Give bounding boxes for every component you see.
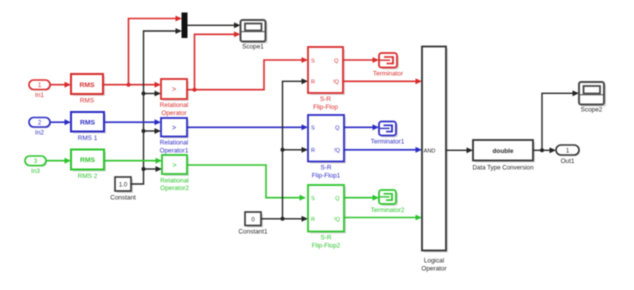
junction node tap to Flip-Flop1 R	[281, 148, 285, 152]
wire RMS to Relational Operator	[103, 82, 161, 88]
wire Flip-Flop1 notQ to Logical Operator input 2	[344, 147, 422, 153]
block RMS1	[71, 112, 106, 142]
svg-text:Operator1: Operator1	[160, 147, 189, 154]
junction node tap to Relational Operator1 b	[142, 129, 146, 133]
svg-text:Out1: Out1	[561, 158, 575, 165]
svg-text:R: R	[311, 217, 315, 223]
svg-text:R: R	[311, 148, 315, 154]
wire Relational Operator output to Scope1 port 2	[195, 31, 241, 89]
scope Scope2	[579, 82, 606, 114]
svg-text:Terminator1: Terminator1	[371, 139, 405, 146]
svg-text:Q: Q	[334, 58, 339, 64]
svg-text:Operator: Operator	[421, 265, 447, 272]
svg-text:S: S	[311, 126, 315, 132]
svg-text:S: S	[311, 196, 315, 202]
wire Constant to Mux input 2 with taps to relational operator b inputs	[131, 28, 182, 184]
wire Flip-Flop notQ to Logical Operator input 1	[343, 78, 422, 84]
wire Constant1 branch to Flip-Flop R input	[283, 78, 309, 218]
wire In1 to RMS	[50, 82, 71, 88]
block RMS2	[71, 150, 106, 181]
junction node Constant1 branch up	[281, 217, 285, 221]
svg-text:>: >	[172, 162, 176, 169]
junction node on Relational Operator output	[193, 88, 197, 92]
svg-text:>: >	[172, 87, 176, 94]
wire Flip-Flop1 Q to Terminator1	[344, 124, 379, 130]
junction node on RMS output	[127, 83, 131, 87]
wire In2 to RMS1	[50, 119, 71, 125]
inport In1	[29, 80, 51, 99]
svg-text:!Q: !Q	[334, 148, 341, 154]
wire tap to Relational Operator1 b input	[144, 128, 162, 134]
wire Flip-Flop Q to Terminator	[343, 57, 379, 63]
constant Constant value 1.0	[110, 177, 136, 202]
svg-text:Constant: Constant	[110, 195, 136, 202]
svg-text:Terminator2: Terminator2	[371, 207, 405, 214]
svg-text:RMS: RMS	[80, 119, 96, 126]
svg-text:S-R: S-R	[320, 165, 331, 172]
svg-text:RMS: RMS	[80, 98, 94, 105]
wire branch RMS output to Mux input 1	[129, 16, 183, 85]
svg-text:S-R: S-R	[320, 235, 331, 242]
svg-text:Data Type Conversion: Data Type Conversion	[472, 165, 534, 172]
wire Relational Operator1 to Flip-Flop1 S input	[187, 124, 308, 130]
terminator Terminator1	[371, 122, 405, 146]
constant Constant1 value 0	[238, 212, 268, 236]
block Relational Operator	[160, 79, 189, 117]
wire tap to Relational Operator b input	[144, 91, 162, 97]
wire Logical Operator to Data Type Conversion	[446, 147, 473, 153]
svg-text:>: >	[172, 125, 176, 132]
wire Relational Operator2 to Flip-Flop2 S input	[187, 165, 306, 201]
svg-text:double: double	[493, 148, 514, 155]
junction node tap to Relational Operator2 b	[142, 167, 146, 171]
svg-text:Scope2: Scope2	[581, 107, 603, 114]
svg-text:RMS 1: RMS 1	[78, 135, 98, 142]
wire Flip-Flop2 notQ to Logical Operator input 3	[344, 215, 422, 221]
block Data Type Conversion	[472, 140, 535, 172]
wire tap to Flip-Flop1 R input	[283, 147, 309, 153]
svg-text:AND: AND	[424, 148, 436, 154]
scope Scope1	[241, 20, 268, 51]
svg-text:In3: In3	[31, 168, 40, 175]
svg-text:In1: In1	[35, 92, 44, 99]
wire RMS1 to Relational Operator1	[104, 119, 161, 125]
svg-text:Operator2: Operator2	[160, 185, 189, 192]
flip-flop Flip-Flop1	[308, 115, 346, 179]
svg-text:Q: Q	[335, 126, 340, 132]
svg-text:Flip-Flop2: Flip-Flop2	[312, 242, 341, 249]
svg-text:Q: Q	[335, 196, 340, 202]
wire branch to Scope2	[542, 90, 579, 150]
flip-flop Flip-Flop2	[308, 185, 346, 249]
svg-text:Flip-Flop: Flip-Flop	[313, 104, 338, 111]
mux Mux	[182, 13, 187, 38]
svg-text:RMS: RMS	[80, 157, 96, 164]
svg-text:R: R	[311, 80, 315, 86]
svg-text:Flip-Flop1: Flip-Flop1	[312, 172, 341, 179]
wire Mux to Scope1 port 1	[187, 22, 241, 28]
svg-text:Scope1: Scope1	[242, 44, 264, 51]
svg-text:Relational: Relational	[160, 102, 188, 109]
svg-text:!Q: !Q	[334, 217, 341, 223]
flip-flop Flip-Flop	[308, 47, 345, 111]
inport In2	[29, 118, 51, 137]
wire tap to Relational Operator2 b input	[144, 166, 163, 172]
svg-text:Constant1: Constant1	[238, 229, 268, 236]
svg-text:!Q: !Q	[333, 80, 340, 86]
inport In3	[25, 156, 47, 175]
svg-text:RMS 2: RMS 2	[78, 173, 98, 180]
wire Data Type Conversion to Out1	[533, 147, 556, 153]
wire Relational Operator to Flip-Flop S input	[187, 57, 308, 90]
block RMS	[71, 74, 105, 105]
svg-text:S: S	[311, 58, 315, 64]
outport Out1	[556, 145, 580, 165]
svg-text:In2: In2	[35, 130, 44, 137]
svg-text:1.0: 1.0	[119, 183, 128, 189]
terminator Terminator2	[371, 190, 405, 214]
terminator Terminator	[373, 53, 404, 78]
svg-text:Relational: Relational	[160, 140, 188, 147]
svg-text:S-R: S-R	[320, 96, 331, 103]
wire Constant1 to Flip-Flop2 R input	[261, 216, 308, 222]
svg-text:RMS: RMS	[79, 82, 95, 89]
junction node on Data Type Conversion output	[540, 148, 544, 152]
svg-text:Logical: Logical	[424, 258, 444, 265]
block Relational Operator1	[160, 118, 189, 154]
wire Flip-Flop2 Q to Terminator2	[344, 195, 379, 201]
logic gate Logical Operator AND	[421, 47, 448, 273]
svg-text:Operator: Operator	[161, 110, 187, 117]
svg-text:Relational: Relational	[160, 177, 188, 184]
block Relational Operator2	[160, 155, 189, 192]
wire RMS2 to Relational Operator2	[104, 158, 162, 164]
wire In3 to RMS2	[46, 158, 71, 164]
junction node tap to Relational Operator b	[142, 92, 146, 96]
svg-text:Terminator: Terminator	[373, 71, 404, 78]
